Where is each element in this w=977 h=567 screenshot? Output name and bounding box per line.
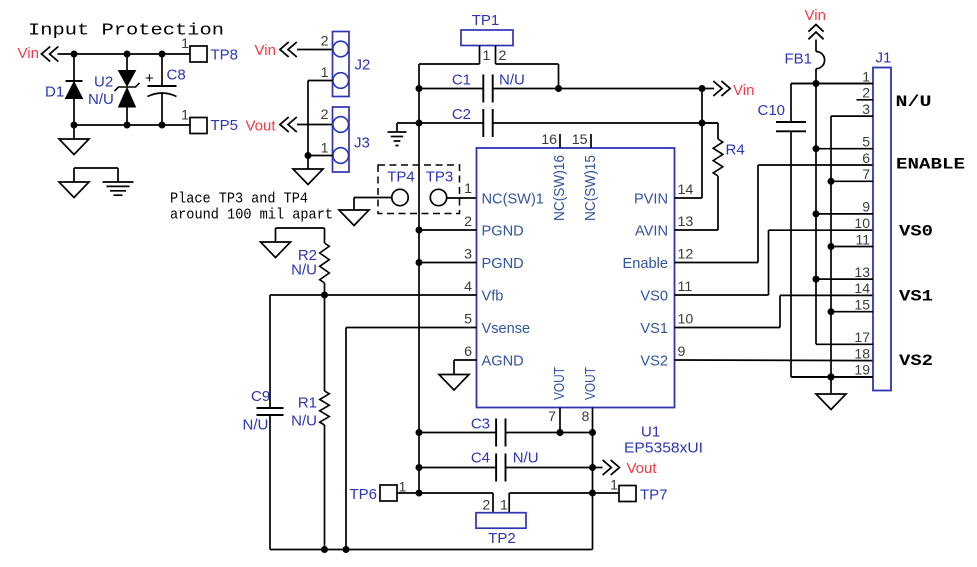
wire VS2 to J1 pin18 bbox=[675, 359, 874, 362]
ferrite bead FB1 bbox=[815, 40, 817, 52]
J1 pin 9 bbox=[816, 213, 873, 215]
svg-text:2: 2 bbox=[321, 107, 329, 123]
node C2 right bbox=[699, 120, 706, 127]
ground tie symbol (signal gnd) bbox=[74, 167, 118, 169]
svg-text:15: 15 bbox=[572, 132, 588, 148]
svg-text:FB1: FB1 bbox=[785, 50, 813, 67]
svg-text:AGND: AGND bbox=[482, 353, 524, 369]
node R1-bottom bbox=[321, 546, 328, 553]
svg-text:1: 1 bbox=[464, 181, 472, 197]
svg-text:U1: U1 bbox=[641, 424, 660, 441]
svg-text:TP8: TP8 bbox=[211, 47, 239, 64]
svg-text:TP3: TP3 bbox=[426, 169, 454, 186]
svg-text:TP6: TP6 bbox=[349, 486, 377, 503]
svg-text:NC(SW)16: NC(SW)16 bbox=[552, 155, 568, 221]
J1 pin 15 bbox=[831, 311, 873, 313]
svg-text:N/U: N/U bbox=[243, 417, 269, 434]
earth ground (chassis) bbox=[117, 168, 119, 182]
svg-text:J1: J1 bbox=[876, 50, 892, 67]
ground under J3 bbox=[307, 156, 309, 170]
svg-text:7: 7 bbox=[548, 409, 556, 425]
svg-text:C8: C8 bbox=[167, 67, 186, 84]
svg-text:Enable: Enable bbox=[623, 256, 668, 272]
wire PGND pin3 bbox=[419, 262, 477, 264]
gnd rail (J1 group bottom pins) bbox=[830, 116, 832, 394]
svg-text:C10: C10 bbox=[758, 102, 786, 119]
svg-text:C9: C9 bbox=[251, 388, 270, 405]
svg-text:C4: C4 bbox=[471, 450, 490, 467]
svg-text:N/U: N/U bbox=[499, 72, 525, 89]
svg-text:1: 1 bbox=[610, 478, 618, 494]
ground at R2 top bbox=[276, 227, 325, 229]
TVS diode U2 (bidirectional) bbox=[126, 54, 128, 71]
svg-text:TP7: TP7 bbox=[640, 487, 668, 504]
node vout-TP7 bbox=[589, 490, 596, 497]
svg-text:10: 10 bbox=[678, 312, 694, 328]
svg-text:Place TP3 and TP4: Place TP3 and TP4 bbox=[170, 192, 308, 208]
svg-text:1: 1 bbox=[321, 65, 329, 81]
net flag Vin (right) bbox=[713, 81, 730, 96]
svg-text:N/U: N/U bbox=[88, 91, 114, 108]
svg-text:EP5358xUI: EP5358xUI bbox=[624, 440, 703, 457]
svg-text:2: 2 bbox=[321, 34, 329, 50]
vin rail (J1 group top pins) bbox=[815, 84, 817, 345]
J1 pin 2 bbox=[857, 99, 874, 101]
wire Vsense net bbox=[346, 327, 477, 329]
J1 pin 3 bbox=[831, 115, 873, 117]
wire Enable to J1 pin6 bbox=[675, 262, 759, 264]
svg-text:1: 1 bbox=[321, 141, 329, 157]
resistor R4 bbox=[702, 122, 718, 124]
wire TP1.2 to Vin net bbox=[496, 63, 559, 65]
J1 pin 13 bbox=[816, 278, 873, 280]
node Vin-C8 bbox=[159, 51, 166, 58]
svg-text:2: 2 bbox=[482, 498, 490, 514]
svg-text:VS2: VS2 bbox=[640, 353, 668, 369]
svg-text:Vin: Vin bbox=[18, 45, 39, 62]
wire feedback bottom rail bbox=[270, 549, 593, 551]
svg-text:PVIN: PVIN bbox=[634, 191, 668, 207]
node FB1-J1 bbox=[813, 80, 820, 87]
svg-text:3: 3 bbox=[464, 247, 472, 263]
svg-text:TP1: TP1 bbox=[472, 12, 500, 29]
svg-text:ENABLE: ENABLE bbox=[896, 156, 965, 174]
svg-text:1: 1 bbox=[500, 498, 508, 514]
svg-text:D1: D1 bbox=[45, 84, 64, 101]
connector J1 body bbox=[873, 68, 891, 391]
node Vfb-R2 bbox=[321, 292, 328, 299]
svg-text:1: 1 bbox=[181, 108, 189, 124]
svg-text:+: + bbox=[145, 70, 154, 87]
wire VS0 to J1 pin10 bbox=[675, 294, 769, 296]
svg-text:13: 13 bbox=[678, 214, 694, 230]
connector J3 bbox=[333, 107, 350, 172]
svg-text:4: 4 bbox=[464, 279, 472, 295]
svg-text:C2: C2 bbox=[452, 106, 471, 123]
svg-text:7: 7 bbox=[862, 166, 870, 182]
wire Vin to J1 pin1 bbox=[791, 83, 873, 85]
gnd rail vertical bbox=[418, 64, 420, 493]
svg-text:U2: U2 bbox=[94, 74, 113, 91]
dashed box TP3 TP4 bbox=[378, 165, 460, 214]
net flag Vout (right) bbox=[593, 467, 603, 469]
wire Vfb net bbox=[270, 294, 477, 296]
test point TP2 bbox=[492, 493, 494, 513]
svg-text:AVIN: AVIN bbox=[635, 223, 668, 239]
svg-text:around 100 mil apart: around 100 mil apart bbox=[170, 208, 333, 224]
svg-text:Vin: Vin bbox=[805, 7, 826, 24]
svg-text:N/U: N/U bbox=[291, 413, 317, 430]
svg-text:13: 13 bbox=[854, 264, 870, 280]
node C4 left bbox=[416, 464, 423, 471]
svg-text:VS0: VS0 bbox=[899, 223, 933, 241]
svg-text:8: 8 bbox=[582, 409, 590, 425]
svg-text:9: 9 bbox=[862, 199, 870, 215]
svg-text:TP5: TP5 bbox=[211, 117, 239, 134]
node gnd-C8 bbox=[159, 122, 166, 129]
node C1 left bbox=[416, 85, 423, 92]
svg-text:J3: J3 bbox=[354, 135, 370, 152]
J1 pin 17 bbox=[816, 343, 873, 345]
pin 15 stub bbox=[590, 134, 592, 148]
J1 pin 1 bbox=[791, 83, 873, 85]
J1 pin 19 bbox=[791, 376, 873, 378]
svg-text:N/U: N/U bbox=[291, 262, 317, 279]
connector J2 bbox=[333, 32, 350, 97]
svg-text:TP2: TP2 bbox=[488, 530, 516, 547]
wire C10 gnd to J1 pin19 bbox=[791, 376, 873, 378]
J1 pin 7 bbox=[831, 180, 873, 182]
node TP1.2-Vin bbox=[555, 85, 562, 92]
node C3 left bbox=[416, 429, 423, 436]
node Vin-D1 bbox=[71, 51, 78, 58]
pin 8 vout column bbox=[592, 408, 594, 550]
pin 7 stub bbox=[559, 408, 561, 433]
wire AVIN pin13 bbox=[675, 229, 719, 231]
wire PGND pin2 bbox=[419, 229, 477, 231]
wire Vin top rail bbox=[58, 53, 191, 55]
wire TP2.1 vout row bbox=[509, 492, 619, 494]
diode D1 bbox=[73, 54, 75, 81]
capacitor C9 N/U bbox=[269, 295, 271, 408]
wire bottom rail input protection bbox=[74, 124, 190, 126]
node Vin-R4col bbox=[699, 85, 706, 92]
svg-text:NC(SW)15: NC(SW)15 bbox=[583, 155, 599, 221]
svg-text:11: 11 bbox=[855, 231, 870, 247]
svg-text:9: 9 bbox=[678, 344, 686, 360]
svg-text:R1: R1 bbox=[298, 395, 317, 412]
wire TP1.1 to gnd rail bbox=[419, 63, 480, 65]
svg-text:Vin: Vin bbox=[255, 42, 276, 59]
svg-text:Vsense: Vsense bbox=[482, 321, 531, 337]
earth ground at gnd rail bbox=[397, 122, 419, 124]
svg-text:2: 2 bbox=[862, 85, 870, 101]
svg-text:3: 3 bbox=[862, 101, 870, 117]
svg-text:C1: C1 bbox=[452, 72, 471, 89]
svg-text:VS1: VS1 bbox=[899, 288, 933, 306]
capacitor C8 (polarized) bbox=[161, 54, 163, 86]
J1 pin 11 bbox=[831, 246, 873, 248]
svg-text:VOUT: VOUT bbox=[552, 367, 568, 400]
svg-text:Vin: Vin bbox=[733, 82, 754, 99]
svg-text:15: 15 bbox=[854, 297, 870, 313]
node gnd-U2 bbox=[124, 122, 131, 129]
svg-text:PGND: PGND bbox=[482, 256, 524, 272]
svg-text:5: 5 bbox=[464, 312, 472, 328]
J1 pin 5 bbox=[816, 148, 873, 150]
node C4 right bbox=[589, 464, 596, 471]
wire PVIN pin14 bbox=[675, 197, 703, 199]
svg-text:2: 2 bbox=[499, 48, 507, 64]
node C3-pin7 bbox=[557, 429, 564, 436]
ground under J1 bbox=[816, 394, 846, 410]
pin 16 stub bbox=[559, 134, 561, 148]
node pin19-gnd bbox=[828, 374, 835, 381]
wire J2 pin1 to gnd junction bbox=[308, 80, 333, 82]
IC U1 EP5358xUI body bbox=[477, 148, 675, 408]
svg-text:Input Protection: Input Protection bbox=[28, 22, 224, 41]
node gnd-D1 bbox=[71, 122, 78, 129]
wire TP4 to ground bbox=[354, 197, 392, 199]
svg-text:J2: J2 bbox=[355, 57, 371, 74]
svg-text:VS2: VS2 bbox=[899, 352, 933, 370]
svg-text:TP4: TP4 bbox=[387, 169, 415, 186]
wire TP6 gnd row bbox=[397, 492, 493, 494]
svg-text:1: 1 bbox=[181, 36, 189, 52]
svg-text:14: 14 bbox=[678, 182, 694, 198]
svg-text:16: 16 bbox=[541, 132, 557, 148]
ground at TP4 bbox=[353, 198, 355, 211]
node Vsense-bottom bbox=[343, 546, 350, 553]
svg-text:1: 1 bbox=[862, 68, 870, 84]
ground under D1 rail bbox=[73, 125, 75, 139]
node J2.1-J3.1-gnd bbox=[305, 152, 312, 159]
svg-text:Vout: Vout bbox=[246, 118, 277, 135]
svg-text:Vout: Vout bbox=[627, 460, 658, 477]
node Vin-U2 bbox=[124, 51, 131, 58]
ground AGND pin6 bbox=[454, 359, 477, 361]
resistor R1 N/U bbox=[324, 295, 326, 391]
svg-text:R4: R4 bbox=[726, 142, 745, 159]
svg-text:VOUT: VOUT bbox=[583, 367, 599, 400]
wire J3 pin1 bbox=[308, 155, 333, 157]
svg-text:19: 19 bbox=[854, 362, 870, 378]
svg-text:17: 17 bbox=[854, 329, 870, 345]
resistor R2 N/U bbox=[324, 228, 326, 243]
svg-text:6: 6 bbox=[464, 344, 472, 360]
wire Vout to J3 pin2 bbox=[297, 124, 333, 126]
svg-text:NC(SW)1: NC(SW)1 bbox=[482, 191, 544, 207]
svg-text:VS1: VS1 bbox=[640, 321, 668, 337]
node TP6-gndrail bbox=[416, 490, 423, 497]
wire VS1 to J1 pin14 bbox=[675, 327, 781, 329]
svg-text:2: 2 bbox=[464, 214, 472, 230]
svg-text:10: 10 bbox=[854, 215, 870, 231]
svg-text:1: 1 bbox=[483, 48, 491, 64]
svg-text:C3: C3 bbox=[471, 416, 490, 433]
node C3-pin8 bbox=[589, 429, 596, 436]
svg-text:PGND: PGND bbox=[482, 223, 524, 239]
svg-text:VS0: VS0 bbox=[640, 288, 668, 304]
node C2 left bbox=[416, 120, 423, 127]
svg-text:N/U: N/U bbox=[513, 450, 539, 467]
svg-text:12: 12 bbox=[678, 247, 694, 263]
svg-text:18: 18 bbox=[854, 345, 870, 361]
svg-text:N/U: N/U bbox=[896, 93, 932, 111]
wire Vin to J2 pin2 bbox=[297, 49, 333, 51]
wire TP3 to pin1 NC(SW)1 bbox=[447, 197, 477, 199]
svg-text:14: 14 bbox=[854, 280, 870, 296]
svg-text:5: 5 bbox=[862, 134, 870, 150]
svg-text:11: 11 bbox=[678, 279, 693, 295]
svg-text:6: 6 bbox=[862, 150, 870, 166]
svg-text:Vfb: Vfb bbox=[482, 288, 504, 304]
